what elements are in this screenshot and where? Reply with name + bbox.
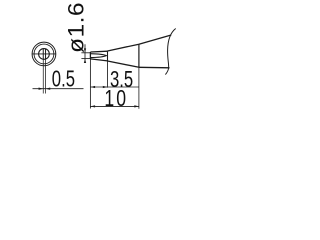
dim 10: left extension line — [89, 59, 91, 109]
dim dia1.6: upper tick — [81, 52, 90, 54]
end view: outer circle — [32, 42, 56, 66]
svg-text:0.5: 0.5 — [52, 67, 75, 92]
side view: chisel top outline — [90, 50, 107, 53]
side view: chisel bottom outline — [90, 59, 107, 61]
svg-text:10: 10 — [104, 86, 128, 112]
side view: cone top — [108, 44, 139, 51]
side view: shank top — [139, 35, 171, 44]
side view: cone bottom — [108, 61, 139, 67]
dim 0.5: right arrow — [46, 88, 51, 90]
dim 0.5: left arrow — [39, 88, 44, 90]
dim 10: right arrow — [134, 105, 139, 107]
side view: shank bottom — [139, 66, 170, 69]
svg-text:ø1.6: ø1.6 — [64, 2, 88, 53]
dim 0.5: line — [33, 88, 84, 90]
end view: inner circle — [39, 49, 50, 60]
end view: slot edge right + extension down — [45, 49, 47, 59]
dim 3.5: right extension continuation below step — [107, 61, 109, 88]
dim dia1.6: lower tick — [81, 58, 90, 60]
dim 3.5: right arrow — [103, 86, 108, 88]
side view: chisel flat boundary — [90, 54, 106, 58]
side view: step line — [107, 51, 109, 61]
dim dia1.6: lower arrow — [84, 59, 86, 63]
dim dia1.6: vertical line — [84, 44, 86, 63]
side view: tip face — [89, 52, 91, 59]
end view: slot edge left + extension down — [42, 49, 44, 59]
dim 3.5: left arrow — [90, 86, 95, 88]
side view: break curve — [165, 29, 175, 75]
end view: second ring — [34, 44, 54, 64]
dim 10: right extension line — [138, 67, 140, 108]
dim dia1.6: upper arrow — [84, 48, 86, 52]
dim 10: left arrow — [90, 105, 95, 107]
end view: horizontal center line — [32, 53, 55, 55]
side view: cone/shank junction — [138, 44, 140, 67]
dim 10: line — [90, 105, 139, 107]
dim 3.5: line — [90, 86, 139, 88]
